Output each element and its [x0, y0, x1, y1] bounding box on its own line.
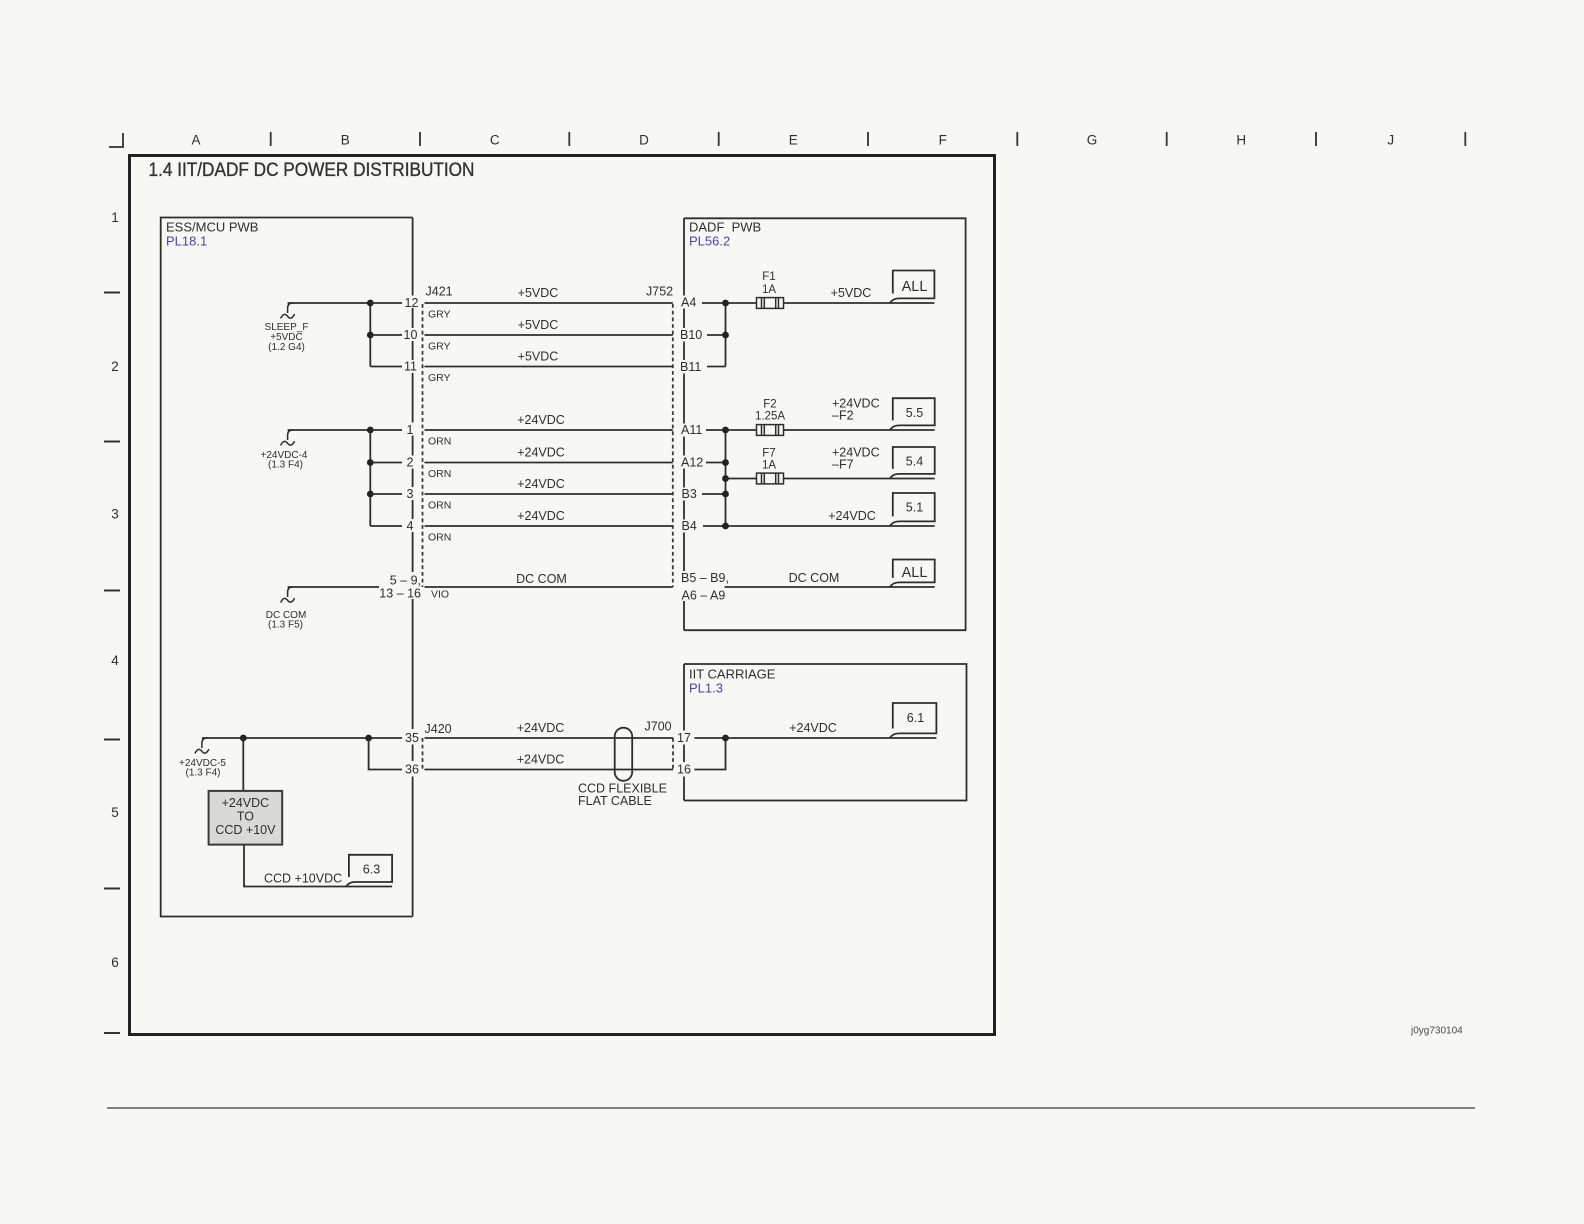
svg-text:1: 1 — [111, 210, 119, 225]
svg-text:1A: 1A — [762, 460, 776, 472]
wire +24VDC row4 — [425, 525, 673, 527]
wire converter to flag 6.3 — [244, 845, 392, 887]
svg-text:+24VDC: +24VDC — [517, 753, 565, 767]
svg-text:B4: B4 — [682, 519, 697, 533]
svg-text:ORN: ORN — [428, 500, 451, 512]
svg-text:J421: J421 — [426, 285, 453, 299]
flag 5.4 — [890, 447, 935, 479]
wire to pin 2 — [370, 462, 402, 464]
wire F1 to flag ALL — [784, 302, 935, 304]
svg-text:12: 12 — [405, 296, 419, 310]
svg-text:1A: 1A — [762, 284, 776, 296]
SECTION: header ruler — [109, 132, 1465, 148]
wire to pin 10 — [370, 334, 402, 336]
svg-text:J752: J752 — [646, 285, 673, 299]
wire node to fuse F1 — [726, 302, 757, 304]
flag 6.1 — [890, 703, 936, 738]
svg-text:B3: B3 — [682, 487, 697, 501]
wire left collector group1 — [369, 303, 371, 367]
converter box +24VDC TO CCD +10V — [209, 791, 283, 845]
svg-text:+24VDC: +24VDC — [828, 509, 876, 523]
wire A4 to node — [702, 302, 726, 304]
svg-text:A6 – A9: A6 – A9 — [682, 589, 726, 603]
flag 5.1 — [890, 493, 935, 526]
wire +5VDC row2 — [425, 334, 673, 336]
wire +24VDC row36 — [425, 769, 674, 771]
svg-text:TO: TO — [237, 810, 254, 824]
svg-text:5.4: 5.4 — [906, 455, 923, 469]
off-page connector +24VDC-5 (1.3 F4) — [179, 738, 226, 779]
svg-text:36: 36 — [405, 763, 419, 777]
wire to pin 11 — [370, 366, 402, 368]
svg-text:6.1: 6.1 — [907, 711, 924, 725]
svg-text:DC COM: DC COM — [789, 571, 840, 585]
connector J421 dashed line — [422, 304, 424, 587]
wire +24VDC row3 — [425, 493, 673, 495]
off-page connector SLEEP_F +5VDC (1.2 G4) — [265, 303, 309, 353]
off-page connector DC COM (1.3 F5) — [266, 587, 307, 631]
svg-text:B10: B10 — [680, 328, 702, 342]
svg-text:F7: F7 — [762, 448, 775, 460]
svg-text:GRY: GRY — [428, 309, 451, 321]
svg-text:A11: A11 — [681, 423, 702, 437]
svg-text:H: H — [1236, 133, 1246, 148]
wire B11 to node — [707, 366, 726, 368]
junction pin2 — [367, 459, 374, 466]
svg-text:–F7: –F7 — [832, 458, 854, 472]
wire F2 to flag 5.5 — [784, 429, 935, 431]
junction pin10 — [367, 332, 374, 339]
fuse F2 — [757, 425, 784, 436]
svg-text:5.1: 5.1 — [906, 501, 923, 515]
svg-text:+24VDC: +24VDC — [517, 446, 565, 460]
svg-text:GRY: GRY — [428, 341, 451, 353]
svg-text:CCD +10V: CCD +10V — [215, 823, 276, 837]
junction B3 — [722, 491, 729, 498]
svg-text:IIT CARRIAGE: IIT CARRIAGE — [689, 667, 776, 682]
wire +24VDC row35 — [425, 737, 674, 739]
svg-text:ORN: ORN — [428, 532, 451, 544]
wire F7 branch — [726, 478, 757, 480]
svg-text:6: 6 — [111, 955, 119, 970]
wire B3 to node — [702, 493, 726, 495]
wire to pin 1 — [370, 429, 402, 431]
flag ALL (+5VDC) — [890, 271, 934, 304]
wire +5VDC row3 — [425, 366, 673, 368]
junction pin17 — [722, 735, 729, 742]
svg-text:DC COM: DC COM — [516, 572, 567, 586]
svg-text:ALL: ALL — [902, 279, 928, 295]
svg-text:11: 11 — [404, 360, 417, 374]
svg-text:+24VDC: +24VDC — [517, 413, 565, 427]
CCD flexible flat cable symbol — [615, 728, 633, 781]
wire stub1 to node — [288, 302, 371, 304]
svg-text:3: 3 — [407, 487, 414, 501]
svg-text:+24VDC: +24VDC — [222, 796, 270, 810]
svg-text:(1.3 F4): (1.3 F4) — [268, 460, 303, 471]
wire right collector group2 — [725, 430, 727, 526]
junction pin12 — [367, 300, 374, 307]
fuse F1 — [757, 298, 784, 309]
junction F7 branch — [722, 475, 729, 482]
wire CCD branch down — [242, 738, 244, 791]
svg-text:A4: A4 — [681, 296, 696, 310]
svg-text:17: 17 — [677, 731, 691, 745]
connector J752 dashed line — [672, 304, 674, 587]
wire +5VDC row1 — [425, 302, 673, 304]
svg-text:GRY: GRY — [428, 372, 451, 384]
fuse F7 — [757, 473, 784, 484]
block ESS/MCU PWB — [161, 218, 413, 917]
svg-text:(1.3 F4): (1.3 F4) — [185, 768, 220, 779]
svg-text:C: C — [490, 133, 500, 148]
svg-text:1.4 IIT/DADF DC POWER DISTRIBU: 1.4 IIT/DADF DC POWER DISTRIBUTION — [149, 160, 475, 181]
svg-text:35: 35 — [405, 731, 419, 745]
wire node to fuse F2 — [726, 429, 757, 431]
svg-text:5: 5 — [111, 805, 119, 820]
wire to pin 12 — [370, 302, 402, 304]
wire DC COM mid — [425, 586, 673, 588]
wire F7 to flag 5.4 — [784, 478, 935, 480]
svg-text:+24VDC: +24VDC — [517, 721, 565, 735]
svg-text:ESS/MCU PWB: ESS/MCU PWB — [166, 220, 258, 235]
svg-text:F: F — [939, 133, 947, 148]
flag ALL (DC COM) — [890, 560, 935, 588]
wire A12 to node — [706, 462, 726, 464]
svg-text:6.3: 6.3 — [363, 863, 380, 877]
svg-text:j0yg730104: j0yg730104 — [1410, 1026, 1463, 1037]
svg-text:+5VDC: +5VDC — [518, 286, 559, 300]
svg-text:J700: J700 — [645, 720, 672, 734]
wire node to flag 6.1 — [726, 737, 937, 739]
wire +24VDC row2 — [425, 462, 673, 464]
wire +24VDC row1 — [425, 429, 673, 431]
svg-text:FLAT CABLE: FLAT CABLE — [578, 794, 652, 808]
wire stub2 to node — [288, 429, 371, 431]
SECTION: left ruler — [104, 210, 120, 1033]
svg-text:F2: F2 — [763, 399, 776, 411]
svg-text:DADF PWB: DADF PWB — [689, 220, 761, 235]
border frame — [130, 156, 995, 1035]
connector J700 dashed line — [672, 738, 674, 770]
svg-text:D: D — [639, 133, 649, 148]
svg-text:+5VDC: +5VDC — [518, 350, 559, 364]
wire stub4 to pin35 — [202, 737, 402, 739]
connector J420 dashed line — [422, 738, 424, 770]
svg-text:2: 2 — [111, 359, 119, 374]
svg-text:16: 16 — [677, 763, 691, 777]
wire DC COM right — [725, 586, 935, 588]
svg-text:G: G — [1087, 133, 1098, 148]
wire B10 to node — [707, 334, 726, 336]
junction pin36 branch — [365, 735, 372, 742]
junction pin1 — [367, 427, 374, 434]
wire to pin 4 — [370, 525, 402, 527]
svg-text:ALL: ALL — [902, 565, 928, 581]
svg-text:PL1.3: PL1.3 — [689, 681, 723, 696]
svg-text:–F2: –F2 — [832, 409, 854, 423]
junction pin3 — [367, 491, 374, 498]
svg-text:5.5: 5.5 — [906, 406, 923, 420]
svg-text:B11: B11 — [680, 360, 701, 374]
svg-text:(1.2 G4): (1.2 G4) — [268, 342, 305, 353]
svg-text:PL18.1: PL18.1 — [166, 234, 207, 249]
wire to pin 3 — [370, 493, 402, 495]
svg-text:A12: A12 — [681, 456, 703, 470]
off-page connector +24VDC-4 (1.3 F4) — [261, 430, 308, 471]
svg-text:E: E — [789, 133, 798, 148]
junction A12 — [722, 459, 729, 466]
svg-text:CCD +10VDC: CCD +10VDC — [264, 872, 342, 886]
flag 6.3 — [346, 855, 392, 887]
junction B10 — [722, 332, 729, 339]
wire A11 to node — [706, 429, 726, 431]
svg-text:13 – 16: 13 – 16 — [379, 587, 421, 601]
junction A4 — [722, 300, 729, 307]
svg-text:B: B — [341, 133, 350, 148]
svg-text:5 – 9,: 5 – 9, — [390, 574, 421, 588]
wire DC COM left — [288, 586, 379, 588]
junction CCD branch — [240, 735, 247, 742]
svg-text:1.25A: 1.25A — [755, 411, 785, 423]
wire pin16 to node — [694, 738, 725, 770]
svg-text:+24VDC: +24VDC — [517, 509, 565, 523]
svg-text:3: 3 — [111, 507, 119, 522]
svg-text:(1.3 F5): (1.3 F5) — [268, 620, 303, 631]
svg-text:PL56.2: PL56.2 — [689, 234, 730, 249]
svg-text:J: J — [1387, 133, 1394, 148]
svg-text:F1: F1 — [762, 271, 775, 283]
svg-text:+24VDC: +24VDC — [517, 477, 565, 491]
svg-text:ORN: ORN — [428, 468, 451, 480]
bottom rule — [107, 1107, 1475, 1109]
wire down to pin36 — [369, 738, 402, 770]
block IIT CARRIAGE — [684, 664, 967, 801]
svg-text:4: 4 — [111, 653, 119, 668]
svg-text:1: 1 — [407, 423, 414, 437]
block DADF PWB — [684, 218, 966, 630]
junction B4 — [722, 523, 729, 530]
svg-text:J420: J420 — [425, 722, 452, 736]
wire pin17 to node — [694, 737, 725, 739]
svg-text:ORN: ORN — [428, 436, 451, 448]
svg-text:+5VDC: +5VDC — [831, 286, 872, 300]
junction A11 — [722, 427, 729, 434]
flag 5.5 — [890, 398, 935, 430]
svg-text:A: A — [191, 133, 200, 148]
svg-text:+24VDC: +24VDC — [789, 721, 837, 735]
svg-text:10: 10 — [404, 328, 418, 342]
svg-text:2: 2 — [407, 456, 414, 470]
wire left collector group2 — [369, 430, 371, 526]
wire right collector group1 — [725, 303, 727, 367]
svg-text:VIO: VIO — [431, 589, 449, 601]
svg-text:4: 4 — [407, 519, 414, 533]
svg-text:B5 – B9,: B5 – B9, — [681, 571, 729, 585]
wire B4 row — [703, 525, 935, 527]
svg-text:+5VDC: +5VDC — [518, 318, 559, 332]
